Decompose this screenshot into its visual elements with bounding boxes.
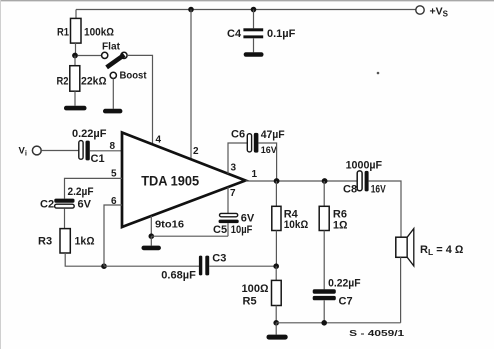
svg-text:C1: C1 (91, 153, 105, 165)
svg-text:2: 2 (193, 146, 199, 157)
node R5/ground/bottom line (273, 320, 279, 326)
svg-text:R1: R1 (57, 27, 69, 39)
resistor R4 (272, 181, 309, 266)
svg-text:R2: R2 (57, 76, 69, 88)
svg-text:22kΩ: 22kΩ (81, 76, 107, 88)
wire pin 2 from rail (190, 10, 192, 160)
resistor R6 (319, 181, 348, 232)
node rail/C4 (251, 7, 257, 13)
wire C8 to speaker (369, 181, 401, 237)
svg-text:100kΩ: 100kΩ (84, 27, 115, 39)
svg-text:RL = 4 Ω: RL = 4 Ω (420, 244, 464, 257)
wire pin 5 to C2 (65, 178, 123, 198)
op-amp U1 TDA 1905 (122, 133, 246, 228)
svg-text:R6: R6 (333, 208, 347, 220)
switch S1 (Flat/Boost) (102, 41, 147, 81)
svg-text:4: 4 (156, 134, 162, 145)
resistor R1 (57, 10, 115, 56)
capacitor C7 (313, 278, 361, 323)
node pin 6 feedback (101, 263, 107, 269)
capacitor C6 (231, 129, 285, 155)
svg-text:1000µF: 1000µF (346, 159, 383, 171)
capacitor C5 (213, 212, 255, 236)
node output/C6/R4 (274, 178, 280, 184)
svg-text:C7: C7 (339, 295, 353, 307)
wire speaker to bottom line (400, 257, 402, 323)
capacitor C3 (161, 253, 226, 282)
svg-text:C2: C2 (40, 199, 54, 211)
wire bottom return line (276, 322, 400, 324)
node C7/bottom line (321, 320, 327, 326)
wire Boost contact to ground (112, 79, 114, 109)
wire R6 to C7 (323, 231, 325, 290)
svg-text:16V: 16V (261, 145, 277, 155)
pin 9to16 (151, 216, 184, 236)
svg-text:1: 1 (252, 169, 258, 180)
speaker RL (396, 229, 464, 266)
svg-text:8: 8 (110, 141, 116, 152)
svg-text:0.22µF: 0.22µF (328, 278, 361, 290)
svg-text:C5: C5 (213, 224, 227, 236)
wire +Vs supply rail (76, 9, 416, 11)
wire pin 6 (104, 205, 122, 266)
resistor R2 (57, 56, 108, 106)
ground below R5 (267, 323, 288, 340)
svg-text:47µF: 47µF (261, 129, 285, 141)
svg-text:R5: R5 (243, 296, 257, 308)
svg-text:7: 7 (230, 188, 236, 199)
svg-text:C3: C3 (212, 253, 226, 265)
wire output line (pin 1 to C8) (246, 180, 358, 182)
capacitor C2 (40, 186, 94, 210)
svg-text:Flat: Flat (102, 41, 121, 52)
wire C6 to output node (258, 143, 276, 181)
svg-text:1kΩ: 1kΩ (75, 236, 96, 248)
wire node to C3 (104, 265, 199, 267)
svg-text:C6: C6 (231, 129, 245, 141)
wire switch right contact to pin 4 (127, 55, 152, 145)
ground below R2 (64, 106, 87, 111)
wire 9to16 node to C5 (151, 235, 228, 237)
svg-text:9to16: 9to16 (155, 219, 184, 231)
svg-text:C8: C8 (343, 184, 357, 196)
wire node A to switch (78, 55, 102, 57)
svg-text:3: 3 (231, 163, 237, 174)
wire C3 to node R4/R5 (209, 265, 276, 267)
wire pin 7 to C5 (227, 187, 229, 213)
node rail/pin2 (188, 7, 194, 13)
svg-text:5: 5 (111, 168, 117, 179)
svg-text:6V: 6V (78, 199, 92, 211)
svg-text:1Ω: 1Ω (333, 220, 348, 232)
wire R3 to feedback node (65, 253, 104, 266)
wire pin 3 to C6 (228, 143, 247, 174)
node output/R6 (322, 178, 328, 184)
ground below 9to16 (142, 236, 161, 250)
svg-text:C4: C4 (227, 28, 242, 40)
ground below C4 (244, 52, 264, 56)
svg-text:6V: 6V (241, 212, 255, 224)
svg-text:0.22µF: 0.22µF (72, 128, 107, 140)
wire C1 to pin 8 (90, 150, 122, 152)
svg-text:10kΩ: 10kΩ (284, 219, 309, 231)
node C3/R4/R5 (273, 263, 279, 269)
svg-text:16V: 16V (371, 184, 387, 196)
terminal Vi (19, 146, 42, 158)
capacitor C1 (72, 128, 107, 165)
svg-text:0.68µF: 0.68µF (161, 269, 196, 281)
node 9to16 ground (149, 233, 155, 239)
svg-text:Boost: Boost (120, 70, 147, 82)
wire C2 to R3 (64, 208, 66, 228)
node A: R1/R2/switch junction (72, 53, 78, 59)
svg-text:100Ω: 100Ω (242, 283, 270, 295)
resistor R3 (38, 229, 95, 253)
svg-text:10µF: 10µF (231, 224, 253, 236)
svg-text:0.1µF: 0.1µF (267, 28, 296, 40)
svg-text:S - 4059/1: S - 4059/1 (349, 328, 404, 338)
capacitor C4 (227, 10, 296, 53)
svg-text:TDA 1905: TDA 1905 (141, 173, 199, 189)
svg-text:2.2µF: 2.2µF (68, 186, 94, 198)
capacitor C8 (343, 159, 386, 195)
ground below Boost (103, 109, 122, 114)
svg-text:R3: R3 (38, 236, 52, 248)
wire Vi to C1 (42, 150, 79, 152)
resistor R5 (242, 266, 282, 323)
terminal +Vs (416, 6, 449, 19)
